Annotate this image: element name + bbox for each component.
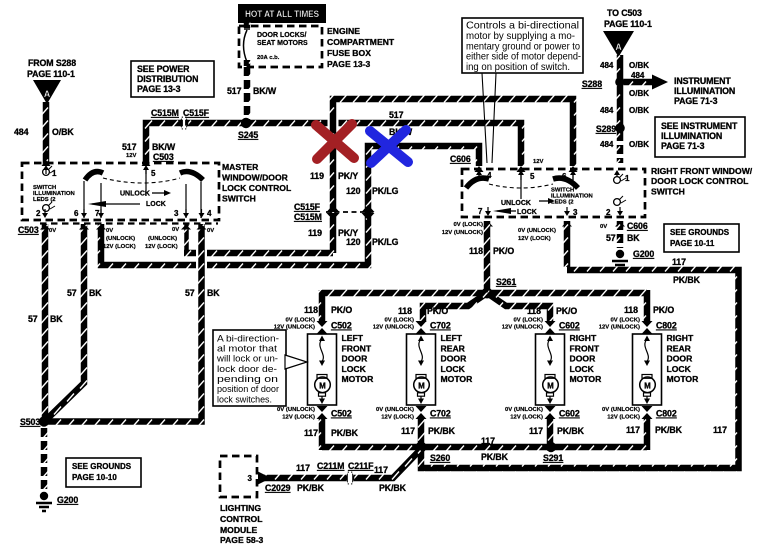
svg-text:LOCK: LOCK [441, 364, 466, 374]
svg-text:12V (LOCK): 12V (LOCK) [607, 415, 640, 421]
svg-text:4: 4 [207, 209, 212, 218]
svg-text:0V: 0V [207, 228, 214, 234]
svg-text:LEFT: LEFT [441, 333, 463, 343]
svg-text:BK: BK [50, 314, 63, 324]
svg-text:MOTOR: MOTOR [441, 374, 474, 384]
svg-text:118: 118 [469, 246, 483, 256]
svg-text:C2029: C2029 [265, 483, 291, 493]
svg-text:0V (UNLOCK): 0V (UNLOCK) [602, 407, 640, 413]
svg-text:O/BK: O/BK [629, 89, 649, 98]
svg-text:COMPARTMENT: COMPARTMENT [327, 37, 395, 47]
svg-text:LEDS (2: LEDS (2 [33, 197, 56, 203]
svg-text:(UNLOCK): (UNLOCK) [148, 236, 177, 242]
svg-text:MASTER: MASTER [222, 162, 259, 172]
svg-text:M: M [644, 381, 651, 390]
svg-text:lock switches.: lock switches. [217, 393, 272, 404]
svg-text:BK: BK [627, 233, 640, 243]
svg-text:PAGE 10-10: PAGE 10-10 [72, 473, 117, 482]
svg-text:12V (UNLOCK): 12V (UNLOCK) [373, 325, 414, 331]
svg-text:PK/O: PK/O [493, 246, 514, 256]
svg-text:ENGINE: ENGINE [327, 26, 360, 36]
svg-text:LEDS (2: LEDS (2 [551, 200, 574, 206]
svg-text:117: 117 [529, 426, 543, 436]
svg-text:12V (LOCK): 12V (LOCK) [103, 244, 136, 250]
svg-text:PK/BK: PK/BK [481, 452, 509, 462]
svg-text:SWITCH: SWITCH [222, 194, 256, 204]
svg-text:PK/BK: PK/BK [557, 426, 585, 436]
svg-text:2: 2 [36, 209, 41, 218]
svg-text:ILLUMINATION: ILLUMINATION [674, 86, 735, 96]
svg-text:C502: C502 [331, 409, 352, 419]
svg-text:BK/W: BK/W [253, 86, 277, 96]
svg-text:FUSE BOX: FUSE BOX [327, 48, 371, 58]
svg-text:0V (LOCK): 0V (LOCK) [514, 318, 543, 324]
svg-text:PAGE 71-3: PAGE 71-3 [674, 96, 718, 106]
svg-text:C515F: C515F [294, 202, 321, 212]
svg-text:12V (LOCK): 12V (LOCK) [381, 415, 414, 421]
svg-text:C515M: C515M [294, 212, 322, 222]
svg-text:0V (LOCK): 0V (LOCK) [611, 318, 640, 324]
svg-text:FROM S288: FROM S288 [28, 58, 76, 68]
svg-text:LOCK CONTROL: LOCK CONTROL [222, 183, 291, 193]
svg-text:57: 57 [606, 233, 616, 243]
svg-text:BK/W: BK/W [152, 142, 176, 152]
svg-text:5: 5 [530, 172, 535, 181]
svg-text:517: 517 [389, 110, 404, 120]
svg-text:A: A [615, 42, 622, 52]
svg-text:118: 118 [527, 306, 541, 316]
svg-text:LOCK: LOCK [570, 364, 595, 374]
svg-text:PK/Y: PK/Y [338, 171, 358, 181]
svg-text:C702: C702 [430, 321, 451, 331]
svg-text:3: 3 [248, 474, 253, 483]
svg-text:120: 120 [346, 186, 361, 196]
svg-text:0V: 0V [106, 228, 113, 234]
svg-text:PAGE 13-3: PAGE 13-3 [327, 59, 371, 69]
svg-text:SEE GROUNDS: SEE GROUNDS [670, 228, 730, 237]
svg-text:PK/BK: PK/BK [655, 425, 683, 435]
svg-text:1: 1 [625, 174, 630, 183]
svg-text:PK/O: PK/O [653, 305, 674, 315]
svg-text:FRONT: FRONT [570, 343, 600, 353]
svg-text:117: 117 [304, 428, 318, 438]
svg-text:PK/BK: PK/BK [379, 483, 407, 493]
svg-text:RIGHT FRONT WINDOW/: RIGHT FRONT WINDOW/ [651, 166, 753, 176]
svg-text:DOOR: DOOR [342, 354, 369, 364]
svg-text:484: 484 [600, 140, 614, 149]
svg-text:0V (LOCK): 0V (LOCK) [454, 222, 483, 228]
svg-text:PK/LG: PK/LG [372, 237, 399, 247]
svg-text:SEE POWER: SEE POWER [137, 64, 190, 74]
svg-text:119: 119 [310, 171, 324, 181]
svg-text:DISTRIBUTION: DISTRIBUTION [137, 74, 198, 84]
svg-text:0V (LOCK): 0V (LOCK) [385, 318, 414, 324]
svg-text:S261: S261 [496, 277, 516, 287]
svg-text:484: 484 [600, 61, 614, 70]
svg-text:12V (LOCK): 12V (LOCK) [510, 415, 543, 421]
svg-text:117: 117 [401, 426, 415, 436]
svg-text:SEE INSTRUMENT: SEE INSTRUMENT [661, 121, 738, 131]
svg-text:PAGE 71-3: PAGE 71-3 [661, 141, 705, 151]
svg-text:12V (LOCK): 12V (LOCK) [518, 236, 551, 242]
svg-text:WINDOW/DOOR: WINDOW/DOOR [222, 173, 289, 183]
svg-text:LOCK: LOCK [146, 201, 166, 208]
svg-text:PK/BK: PK/BK [297, 483, 325, 493]
svg-text:3: 3 [174, 209, 179, 218]
svg-text:SEAT MOTORS: SEAT MOTORS [257, 40, 308, 47]
svg-text:PK/O: PK/O [331, 305, 352, 315]
svg-text:O/BK: O/BK [629, 61, 649, 70]
svg-text:S288: S288 [582, 79, 602, 89]
svg-text:PK/BK: PK/BK [673, 275, 701, 285]
svg-text:LIGHTING: LIGHTING [220, 503, 261, 513]
svg-text:Controls a bi-directional: Controls a bi-directional [466, 21, 579, 32]
svg-text:either side of motor depend-: either side of motor depend- [466, 52, 581, 63]
svg-text:C702: C702 [430, 409, 451, 419]
svg-text:REAR: REAR [667, 343, 692, 353]
svg-text:(UNLOCK): (UNLOCK) [106, 236, 135, 242]
svg-text:117: 117 [374, 465, 388, 475]
svg-text:C515F: C515F [183, 108, 210, 118]
svg-text:12V (LOCK): 12V (LOCK) [145, 244, 178, 250]
svg-text:PK/BK: PK/BK [428, 426, 456, 436]
svg-text:S260: S260 [430, 453, 450, 463]
svg-text:DOOR: DOOR [667, 354, 694, 364]
svg-text:0V (UNLOCK): 0V (UNLOCK) [376, 407, 414, 413]
svg-text:C502: C502 [331, 321, 352, 331]
svg-text:0V: 0V [49, 228, 56, 234]
svg-text:M: M [418, 381, 425, 390]
svg-text:12V (UNLOCK): 12V (UNLOCK) [442, 230, 483, 236]
svg-text:S503: S503 [20, 417, 40, 427]
svg-text:S291: S291 [543, 453, 563, 463]
svg-text:DOOR LOCK CONTROL: DOOR LOCK CONTROL [651, 176, 748, 186]
svg-text:0V (UNLOCK): 0V (UNLOCK) [518, 228, 556, 234]
svg-text:SEE GROUNDS: SEE GROUNDS [72, 462, 132, 471]
svg-text:117: 117 [481, 436, 495, 446]
svg-text:C211M: C211M [317, 461, 344, 471]
svg-text:12V (UNLOCK): 12V (UNLOCK) [274, 325, 315, 331]
svg-text:484: 484 [14, 127, 29, 137]
svg-text:LEFT: LEFT [342, 333, 364, 343]
svg-text:C503: C503 [153, 152, 174, 162]
svg-text:0V (UNLOCK): 0V (UNLOCK) [505, 407, 543, 413]
svg-text:PAGE 58-3: PAGE 58-3 [220, 535, 264, 545]
svg-text:FRONT: FRONT [342, 343, 372, 353]
svg-text:12V (UNLOCK): 12V (UNLOCK) [502, 325, 543, 331]
svg-text:TO C503: TO C503 [607, 8, 642, 18]
svg-text:CONTROL: CONTROL [220, 514, 263, 524]
svg-text:117: 117 [713, 425, 727, 435]
svg-text:PAGE 13-3: PAGE 13-3 [137, 84, 181, 94]
svg-text:7: 7 [95, 209, 100, 218]
svg-text:57: 57 [28, 314, 38, 324]
svg-text:motor by supplying a mo-: motor by supplying a mo- [466, 31, 575, 42]
svg-text:C606: C606 [450, 154, 471, 164]
svg-text:117: 117 [672, 257, 686, 267]
svg-text:57: 57 [185, 288, 195, 298]
svg-text:517: 517 [122, 142, 137, 152]
svg-text:LOCK: LOCK [667, 364, 692, 374]
svg-text:20A c.b.: 20A c.b. [257, 55, 280, 61]
svg-text:M: M [547, 381, 554, 390]
svg-text:120: 120 [346, 237, 361, 247]
svg-text:PK/BK: PK/BK [331, 428, 359, 438]
svg-text:C602: C602 [559, 409, 580, 419]
svg-text:12V (UNLOCK): 12V (UNLOCK) [599, 325, 640, 331]
svg-text:MOTOR: MOTOR [667, 374, 700, 384]
svg-text:DOOR: DOOR [570, 354, 597, 364]
svg-text:DOOR LOCKS/: DOOR LOCKS/ [257, 32, 306, 39]
svg-text:PK/O: PK/O [556, 306, 577, 316]
svg-text:G200: G200 [633, 249, 654, 259]
svg-text:INSTRUMENT: INSTRUMENT [674, 76, 731, 86]
svg-text:UNLOCK: UNLOCK [120, 191, 150, 198]
svg-text:2: 2 [606, 208, 611, 217]
svg-text:REAR: REAR [441, 343, 466, 353]
svg-text:C503: C503 [18, 225, 39, 235]
svg-text:PK/LG: PK/LG [372, 186, 399, 196]
svg-text:C515M: C515M [151, 108, 179, 118]
svg-text:12V: 12V [126, 153, 137, 159]
svg-text:G200: G200 [57, 495, 78, 505]
svg-text:3: 3 [573, 208, 578, 217]
svg-text:0V (LOCK): 0V (LOCK) [286, 318, 315, 324]
svg-text:UNLOCK: UNLOCK [501, 200, 531, 207]
svg-text:O/BK: O/BK [52, 127, 74, 137]
svg-text:12V: 12V [533, 159, 544, 165]
svg-text:117: 117 [296, 463, 310, 473]
svg-text:ILLUMINATION: ILLUMINATION [661, 131, 722, 141]
svg-text:484: 484 [631, 71, 645, 80]
svg-text:PAGE 110-1: PAGE 110-1 [604, 19, 652, 29]
svg-text:S245: S245 [238, 130, 258, 140]
svg-text:C606: C606 [627, 221, 648, 231]
svg-text:6: 6 [74, 209, 79, 218]
svg-text:118: 118 [624, 305, 638, 315]
svg-text:57: 57 [67, 288, 77, 298]
svg-text:484: 484 [600, 106, 614, 115]
svg-text:BK: BK [89, 288, 102, 298]
svg-text:RIGHT: RIGHT [667, 333, 694, 343]
svg-text:DOOR: DOOR [441, 354, 468, 364]
svg-text:MOTOR: MOTOR [342, 374, 375, 384]
svg-text:O/BK: O/BK [629, 140, 649, 149]
svg-text:PK/O: PK/O [427, 306, 448, 316]
svg-text:S289: S289 [596, 124, 616, 134]
svg-text:A: A [44, 89, 51, 99]
svg-text:PAGE 10-11: PAGE 10-11 [670, 239, 715, 248]
svg-text:C802: C802 [656, 321, 677, 331]
svg-text:PAGE 110-1: PAGE 110-1 [27, 69, 75, 79]
svg-text:C802: C802 [656, 409, 677, 419]
svg-text:SWITCH: SWITCH [651, 187, 685, 197]
svg-text:MODULE: MODULE [220, 525, 258, 535]
svg-text:5: 5 [151, 169, 156, 178]
svg-text:O/BK: O/BK [629, 106, 649, 115]
svg-text:LOCK: LOCK [517, 209, 537, 216]
svg-text:LOCK: LOCK [342, 364, 367, 374]
svg-text:HOT AT ALL TIMES: HOT AT ALL TIMES [245, 9, 319, 19]
svg-text:119: 119 [308, 228, 322, 238]
svg-text:0V (UNLOCK): 0V (UNLOCK) [277, 407, 315, 413]
svg-text:118: 118 [304, 305, 318, 315]
svg-text:MOTOR: MOTOR [570, 374, 603, 384]
svg-text:117: 117 [626, 425, 640, 435]
svg-text:BK: BK [207, 288, 220, 298]
svg-text:ing on position of switch.: ing on position of switch. [466, 62, 570, 73]
svg-text:517: 517 [227, 86, 242, 96]
svg-text:118: 118 [398, 306, 412, 316]
svg-text:mentary ground or power to: mentary ground or power to [466, 41, 580, 52]
svg-text:RIGHT: RIGHT [570, 333, 597, 343]
svg-text:7: 7 [478, 207, 483, 216]
svg-text:0V: 0V [172, 227, 179, 233]
svg-text:M: M [319, 381, 326, 390]
svg-text:C602: C602 [559, 321, 580, 331]
svg-text:0V: 0V [600, 224, 607, 230]
svg-text:C211F: C211F [348, 461, 374, 471]
svg-text:12V (LOCK): 12V (LOCK) [282, 415, 315, 421]
